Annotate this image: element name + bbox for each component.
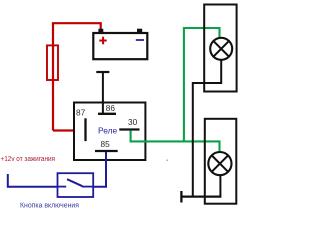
svg-text:30: 30 xyxy=(128,117,138,127)
svg-text:87: 87 xyxy=(76,108,86,118)
svg-text:Реле: Реле xyxy=(98,125,117,135)
svg-text:85: 85 xyxy=(101,139,111,149)
svg-text:Кнопка включения: Кнопка включения xyxy=(20,202,79,209)
svg-text:+12v от зажигания: +12v от зажигания xyxy=(1,156,56,163)
svg-text:86: 86 xyxy=(106,103,116,113)
